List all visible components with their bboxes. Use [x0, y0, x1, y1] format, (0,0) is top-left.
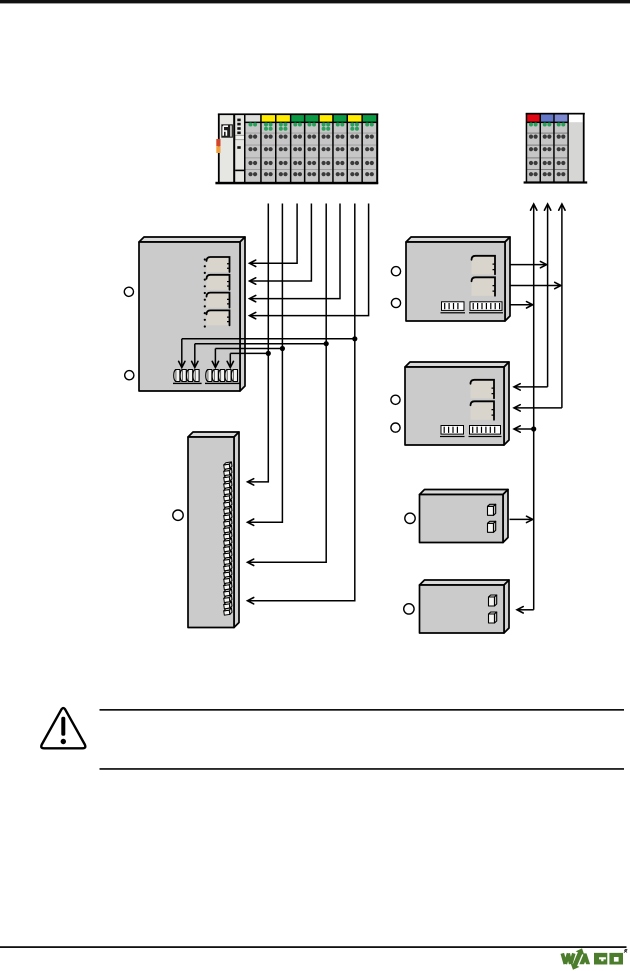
terminal strip D1 [440, 426, 465, 438]
relay shapes in box D [471, 380, 495, 420]
warning triangle [41, 708, 85, 748]
wire to box F in [518, 609, 534, 611]
device box B (distributor) [188, 432, 239, 628]
station bottom rail [215, 182, 378, 185]
device box E [420, 490, 509, 543]
coupler LED column [235, 119, 245, 172]
callout circle 1 [124, 287, 133, 296]
connectors box F [489, 595, 497, 623]
device box A (relay interface) [139, 237, 245, 391]
wire module 2 to box B [249, 204, 269, 482]
relay shapes in box C [472, 256, 496, 296]
I/O module 2 [260, 114, 275, 185]
note rule top [100, 709, 625, 711]
wire box A output [215, 348, 282, 350]
input module 3 [553, 113, 568, 182]
wire module 5 to box A [251, 204, 312, 282]
wire box C out 3 [511, 304, 533, 306]
fieldbus node station [215, 113, 378, 184]
wire box E out [510, 518, 533, 520]
wire box C out 1 [511, 264, 547, 266]
bus wire 2 [547, 205, 549, 387]
right station top rail [526, 113, 585, 115]
junction [280, 346, 285, 351]
callout circle 6 [391, 395, 400, 404]
wire to box D in 3 [515, 428, 534, 430]
wire module 9 to box A [251, 204, 369, 316]
wire to box D in 2 [515, 407, 562, 409]
wire module 8 to box B [249, 204, 355, 601]
wire box C out 2 [511, 285, 561, 287]
junction [324, 341, 329, 346]
fieldbus coupler [218, 114, 248, 184]
callout circle 4 [391, 267, 400, 276]
wire box A output [195, 343, 326, 345]
I/O module 9 [361, 114, 377, 185]
device box C [406, 237, 510, 321]
wire to box D in 1 [515, 386, 548, 388]
wire box A output drop [229, 353, 231, 366]
terminal strip C2 [469, 302, 503, 314]
note rule bottom [100, 768, 625, 770]
device box D [405, 362, 509, 445]
end module [567, 113, 584, 183]
input module station [524, 113, 588, 184]
wire box A output [182, 338, 355, 340]
wire box A output [230, 352, 268, 354]
dotted line box A [204, 258, 206, 327]
callout circle 7 [391, 423, 400, 432]
junction [266, 351, 271, 356]
callout circle 9 [404, 604, 414, 614]
station right edge [376, 114, 378, 185]
WAGO logo [562, 947, 627, 971]
right station bottom rail [524, 181, 588, 183]
junction [352, 336, 357, 341]
coupler RJ45 connector [221, 124, 233, 137]
station top rail [218, 113, 378, 115]
relay shapes in box A [207, 257, 230, 325]
wire module 3 to box B [249, 204, 283, 523]
connector column box B [223, 462, 232, 615]
I/O module 5 [304, 114, 319, 185]
I/O module 8 [347, 114, 363, 185]
device box F [420, 580, 510, 633]
header rule [0, 0, 630, 3]
callout circle 5 [391, 298, 400, 307]
terminal strip D2 [469, 426, 502, 438]
footer rule [0, 946, 627, 948]
input module 2 [540, 113, 554, 182]
I/O module 1 [244, 114, 261, 185]
wire module 7 to box A [251, 204, 341, 299]
input module 1 [526, 113, 541, 182]
wire module 4 to box A [251, 204, 298, 264]
I/O module 4 [290, 114, 305, 185]
bus wire 3 [561, 205, 563, 408]
callout circle 8 [405, 513, 415, 523]
callout circle 3 [173, 510, 183, 520]
terminal strip A1 [173, 370, 202, 385]
bus wire 1 [533, 205, 535, 610]
I/O module 3 [275, 114, 291, 185]
wire box A output drop [181, 339, 183, 367]
callout circle 2 [125, 371, 134, 380]
wire box A output drop [214, 349, 216, 367]
junction [531, 426, 536, 431]
wire module 6 to box B [249, 204, 327, 563]
terminal strip A2 [205, 370, 240, 385]
wire box A output drop [194, 344, 196, 367]
coupler orange latch [216, 139, 220, 153]
I/O module 6 [318, 114, 333, 185]
I/O module 7 [332, 114, 347, 185]
terminal strip C1 [441, 302, 466, 314]
connectors box E [488, 504, 496, 532]
